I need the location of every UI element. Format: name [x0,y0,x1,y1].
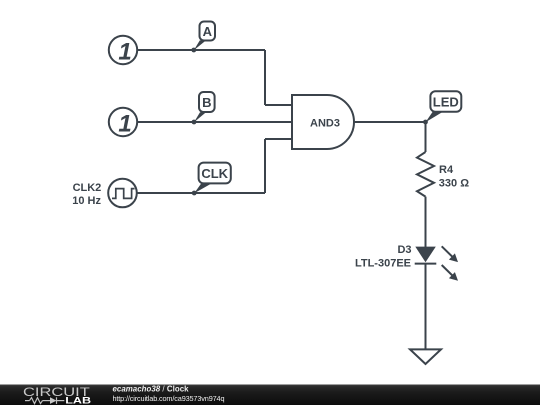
footer bar [0,385,540,405]
junction dot node A [191,48,196,53]
resistor R4 [417,152,434,197]
svg-text:R4: R4 [439,164,454,176]
wire A vertical [264,50,266,105]
LED D3 cathode bar [415,263,437,265]
LED D3 triangle [415,247,436,263]
wire CLK to gate input 3 [265,138,292,140]
junction dot node B [192,120,197,125]
svg-text:CLK2: CLK2 [73,182,102,194]
svg-text:LTL-307EE: LTL-307EE [355,257,411,269]
svg-text:AND3: AND3 [310,117,340,129]
node label LED [426,91,462,122]
clock source CLK2 symbol [108,179,137,208]
CircuitLab logo wire glyph [25,397,64,404]
node label B [194,92,215,122]
svg-text:LAB: LAB [65,396,91,405]
logic source V1 value 1 [109,36,137,66]
wire CLK vertical [264,139,266,193]
wire CLK horizontal [137,192,265,194]
svg-text:ecamacho38 / Clock: ecamacho38 / Clock [113,385,190,394]
wire A to gate input 1 [265,104,292,106]
node label A [194,22,215,51]
wire A horizontal [137,49,265,51]
ground [410,349,441,364]
svg-text:LED: LED [433,95,459,110]
junction dot node CLK [192,191,197,196]
CircuitLab logo text LAB [65,396,91,405]
svg-text:A: A [203,24,213,39]
svg-text:B: B [202,95,211,110]
junction dot node LED [423,120,428,125]
svg-text:10 Hz: 10 Hz [72,195,101,207]
node label CLK [194,163,231,194]
wire B to gate input 2 [137,121,292,123]
wire LED node to resistor [425,122,427,152]
svg-text:D3: D3 [397,244,411,256]
svg-text:1: 1 [118,111,131,138]
logic source V2 value 1 [109,108,137,138]
wire resistor to diode [425,197,427,247]
svg-text:CLK: CLK [201,166,228,181]
LED D3 light arrow 1 [442,246,458,262]
wire gate output to LED node [354,121,426,123]
and gate U1 AND3 [292,95,354,149]
LED D3 light arrow 2 [442,265,458,281]
svg-text:http://circuitlab.com/ca93573v: http://circuitlab.com/ca93573vn974q [113,394,225,403]
CircuitLab logo text CIRCUIT [23,386,90,400]
CircuitLab logo diode glyph [50,397,57,404]
wire diode to ground [425,264,427,350]
svg-text:1: 1 [118,39,131,66]
svg-text:330 Ω: 330 Ω [439,178,469,190]
